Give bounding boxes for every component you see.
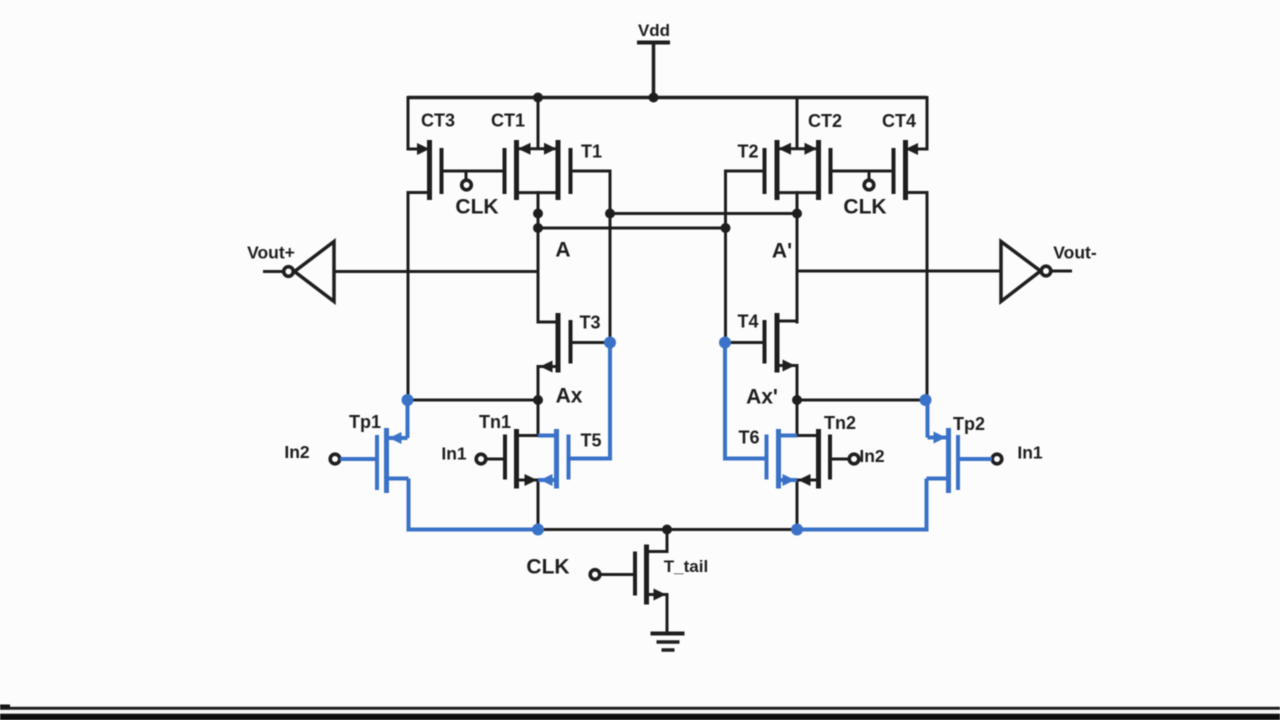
svg-text:Tn2: Tn2 — [824, 413, 856, 433]
svg-text:Ax: Ax — [556, 385, 583, 408]
svg-text:A: A — [555, 239, 570, 262]
svg-text:T1: T1 — [581, 142, 602, 162]
svg-text:In1: In1 — [1017, 442, 1043, 462]
svg-text:CLK: CLK — [526, 556, 569, 579]
svg-text:CT2: CT2 — [808, 111, 842, 131]
svg-text:CLK: CLK — [455, 196, 498, 219]
svg-text:Tp2: Tp2 — [953, 414, 985, 434]
svg-text:Ax': Ax' — [746, 386, 778, 409]
svg-text:In2: In2 — [284, 442, 310, 462]
svg-text:T3: T3 — [579, 313, 600, 333]
svg-text:T_tail: T_tail — [664, 557, 708, 576]
svg-text:A': A' — [772, 240, 792, 263]
svg-text:In1: In1 — [441, 443, 467, 463]
svg-text:Vdd: Vdd — [638, 21, 670, 40]
svg-text:Vout+: Vout+ — [247, 242, 295, 262]
svg-text:T5: T5 — [580, 431, 601, 451]
svg-text:CT3: CT3 — [421, 111, 455, 131]
svg-text:T2: T2 — [737, 142, 758, 162]
svg-text:Tp1: Tp1 — [349, 412, 381, 432]
svg-text:In2: In2 — [859, 446, 885, 466]
svg-text:T4: T4 — [737, 312, 758, 332]
svg-text:Tn1: Tn1 — [479, 412, 511, 432]
svg-text:T6: T6 — [738, 428, 759, 448]
svg-text:CT4: CT4 — [882, 111, 916, 131]
svg-text:CT1: CT1 — [491, 111, 525, 131]
svg-text:Vout-: Vout- — [1053, 242, 1097, 262]
svg-text:CLK: CLK — [843, 196, 886, 219]
